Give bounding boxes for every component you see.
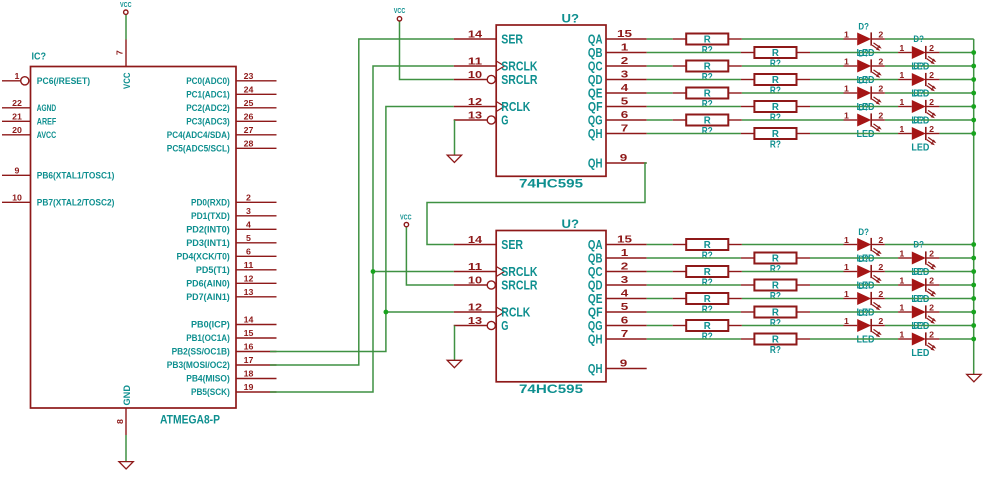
pin 13 G of U#2 <box>454 316 509 333</box>
wire net Q0 to resistor R9 <box>647 244 673 246</box>
wire LED D16 cathode to bus <box>939 338 973 340</box>
ground at G U1 <box>447 155 461 162</box>
svg-text:74HC595: 74HC595 <box>519 382 583 396</box>
pin 7 QH of U#1 <box>588 123 647 142</box>
svg-text:R: R <box>704 321 712 332</box>
wire net Q4 to resistor R13 <box>647 298 673 300</box>
svg-text:7: 7 <box>621 123 629 135</box>
pin 11 SRCLK of U#2 <box>454 262 538 279</box>
svg-text:D?: D? <box>913 321 924 332</box>
wire net Q5 to resistor R6 <box>647 106 741 108</box>
pin 19 PB5(SCK) <box>191 383 277 397</box>
wire resistor R10 to LED D10 <box>810 257 898 259</box>
pin 20 AVCC <box>2 126 56 140</box>
svg-text:14: 14 <box>468 235 483 246</box>
svg-text:20: 20 <box>12 126 22 135</box>
wire net Q6 to resistor R7 <box>647 119 673 121</box>
IC U? 74HC595 shift register #2 body <box>496 219 606 396</box>
svg-text:1: 1 <box>844 236 850 245</box>
svg-text:3: 3 <box>246 207 252 216</box>
svg-text:6: 6 <box>621 109 629 121</box>
svg-text:10: 10 <box>468 276 483 287</box>
resistor R1 value R <box>673 34 742 57</box>
LED D5 <box>844 75 885 113</box>
svg-text:15: 15 <box>617 234 632 246</box>
svg-text:R: R <box>772 48 780 59</box>
LED D2 <box>898 34 939 72</box>
LED D9 <box>844 227 885 265</box>
pin 2 QC of U#1 <box>588 55 647 74</box>
wire branch SS to RCLK U2 <box>386 311 454 313</box>
pin 21 AREF <box>2 112 56 126</box>
svg-text:R?: R? <box>770 291 781 302</box>
resistor R14 value R <box>741 307 810 330</box>
junction on cathode bus <box>971 104 976 109</box>
pin 4 QE of U#1 <box>588 82 647 101</box>
wire net SCK PB5 to SRCLK U1 <box>270 66 454 392</box>
svg-text:6: 6 <box>621 315 629 327</box>
junction SCK branch <box>371 269 376 274</box>
svg-text:24: 24 <box>244 85 254 94</box>
svg-text:R: R <box>704 240 712 251</box>
wire resistor R13 to LED D13 <box>742 298 844 300</box>
wire resistor R8 to LED D8 <box>810 133 898 135</box>
svg-text:4: 4 <box>621 288 629 300</box>
pin 9 PB6(XTAL1/TOSC1) <box>2 166 114 180</box>
svg-text:1: 1 <box>621 247 629 259</box>
wire resistor R7 to LED D7 <box>742 119 844 121</box>
resistor R9 value R <box>673 239 742 262</box>
svg-text:D?: D? <box>913 294 924 305</box>
pin 14 SER of U#1 <box>454 30 524 47</box>
VCC symbol at SRCLR U1 <box>394 8 406 21</box>
svg-text:2: 2 <box>621 261 629 273</box>
svg-text:2: 2 <box>878 236 884 245</box>
svg-text:VCC: VCC <box>120 2 132 9</box>
svg-text:R?: R? <box>770 59 781 70</box>
pin 3 QD of U#2 <box>588 274 647 293</box>
wire branch SCK to SRCLK U2 <box>373 271 454 273</box>
pin 15 QA of U#1 <box>588 28 647 47</box>
wire pin 8 to ground <box>125 435 127 462</box>
svg-text:17: 17 <box>244 356 254 365</box>
LED D6 <box>898 88 939 126</box>
svg-text:2: 2 <box>878 263 884 272</box>
svg-text:R?: R? <box>770 345 781 356</box>
svg-text:19: 19 <box>244 383 254 392</box>
wire resistor R9 to LED D9 <box>742 244 844 246</box>
svg-text:PD2(INT0): PD2(INT0) <box>186 224 230 234</box>
pin 12 RCLK of U#2 <box>454 303 531 320</box>
svg-text:1: 1 <box>844 112 850 121</box>
wire LED D15 cathode to bus <box>885 325 974 327</box>
pin 15 QA of U#2 <box>588 234 647 253</box>
pin 15 PB1(OC1A) <box>186 329 276 343</box>
pin 12 PD6(AIN0) <box>186 274 276 288</box>
svg-text:LED: LED <box>857 129 875 140</box>
svg-text:QH: QH <box>588 156 603 171</box>
svg-text:21: 21 <box>12 112 22 121</box>
pin 13 G of U#1 <box>454 111 509 128</box>
junction on cathode bus <box>971 91 976 96</box>
svg-text:QH: QH <box>588 332 603 347</box>
resistor R3 value R <box>673 61 742 84</box>
microcontroller IC? ATMEGA8-P body <box>31 51 237 427</box>
pin 28 PC5(ADC5/SCL) <box>167 139 277 153</box>
svg-text:VCC: VCC <box>400 215 412 222</box>
svg-text:2: 2 <box>929 44 935 53</box>
junction on cathode bus <box>971 283 976 288</box>
svg-text:12: 12 <box>244 274 254 283</box>
svg-text:PB6(XTAL1/TOSC1): PB6(XTAL1/TOSC1) <box>37 170 115 180</box>
pin 1 QB of U#2 <box>588 247 647 266</box>
svg-text:SRCLR: SRCLR <box>501 72 538 87</box>
svg-text:D?: D? <box>913 115 924 126</box>
svg-text:PB7(XTAL2/TOSC2): PB7(XTAL2/TOSC2) <box>37 197 115 207</box>
svg-text:6: 6 <box>246 247 252 256</box>
svg-text:R?: R? <box>770 264 781 275</box>
resistor R10 value R <box>741 253 810 276</box>
svg-text:4: 4 <box>621 82 629 94</box>
svg-text:G: G <box>501 318 508 333</box>
svg-text:27: 27 <box>244 126 254 135</box>
pin 18 PB4(MISO) <box>186 370 276 384</box>
svg-text:2: 2 <box>621 55 629 67</box>
resistor R8 value R <box>741 128 810 151</box>
svg-text:5: 5 <box>621 96 629 108</box>
pin 6 QG of U#2 <box>588 315 647 334</box>
pin 12 RCLK of U#1 <box>454 97 531 114</box>
svg-text:U?: U? <box>562 14 580 26</box>
wire VCC to pin 7 <box>125 14 127 39</box>
pin 11 PD5(T1) <box>196 261 277 275</box>
svg-text:G: G <box>501 113 508 128</box>
pin 22 AGND <box>2 99 56 113</box>
svg-text:2: 2 <box>929 250 935 259</box>
ground at cathode bus <box>967 374 981 381</box>
wire G U2 to ground <box>454 326 456 361</box>
wire VCC to SRCLR U2 <box>406 227 453 285</box>
wire resistor R12 to LED D12 <box>810 284 898 286</box>
pin 4 QE of U#2 <box>588 288 647 307</box>
LED D15 <box>844 308 885 346</box>
svg-text:1: 1 <box>899 277 905 286</box>
svg-text:D?: D? <box>913 240 924 251</box>
junction on cathode bus <box>971 118 976 123</box>
svg-text:26: 26 <box>244 112 254 121</box>
svg-text:R: R <box>772 254 780 265</box>
svg-text:R?: R? <box>702 126 713 137</box>
svg-text:8: 8 <box>116 418 125 424</box>
svg-text:LED: LED <box>911 143 929 154</box>
LED D11 <box>844 254 885 292</box>
svg-text:R: R <box>772 129 780 140</box>
svg-text:1: 1 <box>899 98 905 107</box>
svg-text:D?: D? <box>858 102 869 113</box>
svg-text:AREF: AREF <box>37 116 57 126</box>
wire net Q3 to resistor R4 <box>647 79 741 81</box>
svg-text:12: 12 <box>468 303 483 314</box>
svg-text:PD0(RXD): PD0(RXD) <box>191 197 230 207</box>
pin 11 SRCLK of U#1 <box>454 57 538 74</box>
pin 14 SER of U#2 <box>454 235 524 252</box>
svg-text:AGND: AGND <box>37 103 57 113</box>
wire resistor R1 to LED D1 <box>742 38 844 40</box>
svg-text:PD4(XCK/T0): PD4(XCK/T0) <box>177 251 230 261</box>
svg-text:R: R <box>772 308 780 319</box>
svg-text:10: 10 <box>12 193 22 202</box>
wire LED D12 cathode to bus <box>939 284 973 286</box>
svg-text:AVCC: AVCC <box>37 130 57 140</box>
resistor R5 value R <box>673 88 742 111</box>
wire resistor R3 to LED D3 <box>742 65 844 67</box>
svg-text:D?: D? <box>858 281 869 292</box>
wire LED cathode bus vertical <box>973 39 975 374</box>
pin 7 VCC <box>116 40 127 67</box>
svg-text:11: 11 <box>468 57 483 68</box>
svg-text:R?: R? <box>702 99 713 110</box>
svg-text:2: 2 <box>929 125 935 134</box>
svg-text:2: 2 <box>929 277 935 286</box>
pin 1 PC6(/RESET) <box>2 72 90 86</box>
wire resistor R2 to LED D2 <box>810 52 898 54</box>
svg-text:1: 1 <box>899 71 905 80</box>
wire net QH' U1 to SER U2 <box>427 163 647 245</box>
wire resistor R4 to LED D4 <box>810 79 898 81</box>
svg-text:ATMEGA8-P: ATMEGA8-P <box>160 413 220 427</box>
wire net Q5 to resistor R14 <box>647 311 741 313</box>
svg-text:R: R <box>704 62 712 73</box>
svg-text:16: 16 <box>244 343 254 352</box>
pin 25 PC2(ADC2) <box>186 99 276 113</box>
wire net Q7 to resistor R8 <box>647 133 741 135</box>
svg-text:1: 1 <box>899 331 905 340</box>
wire LED D11 cathode to bus <box>885 271 974 273</box>
svg-text:D?: D? <box>913 34 924 45</box>
svg-text:2: 2 <box>246 193 252 202</box>
svg-text:VCC: VCC <box>394 8 406 15</box>
svg-text:D?: D? <box>858 227 869 238</box>
svg-text:25: 25 <box>244 99 254 108</box>
svg-text:11: 11 <box>468 262 483 273</box>
svg-text:PB3(MOSI/OC2): PB3(MOSI/OC2) <box>167 360 230 370</box>
svg-text:13: 13 <box>244 288 254 297</box>
resistor R13 value R <box>673 293 742 316</box>
LED D7 <box>844 102 885 140</box>
svg-text:2: 2 <box>878 112 884 121</box>
wire resistor R14 to LED D14 <box>810 311 898 313</box>
svg-text:2: 2 <box>878 317 884 326</box>
pin 16 PB2(SS/OC1B) <box>172 343 277 357</box>
svg-text:R: R <box>704 35 712 46</box>
wire LED D7 cathode to bus <box>885 119 974 121</box>
svg-text:1: 1 <box>844 317 850 326</box>
resistor R7 value R <box>673 115 742 138</box>
pin 26 PC3(ADC3) <box>186 112 276 126</box>
svg-text:D?: D? <box>858 308 869 319</box>
resistor R12 value R <box>741 280 810 303</box>
LED D13 <box>844 281 885 319</box>
resistor R16 value R <box>741 334 810 357</box>
svg-text:QH: QH <box>588 361 603 376</box>
pin 8 GND <box>116 408 126 435</box>
svg-text:SER: SER <box>501 237 523 252</box>
svg-text:D?: D? <box>858 48 869 59</box>
wire net Q2 to resistor R3 <box>647 65 673 67</box>
svg-text:PC3(ADC3): PC3(ADC3) <box>186 116 230 126</box>
svg-text:D?: D? <box>913 88 924 99</box>
wire LED D13 cathode to bus <box>885 298 974 300</box>
LED D12 <box>898 267 939 305</box>
pin 24 PC1(ADC1) <box>186 85 276 99</box>
svg-text:PB2(SS/OC1B): PB2(SS/OC1B) <box>172 347 230 357</box>
wire VCC to SRCLR U1 <box>400 21 454 80</box>
resistor R15 value R <box>673 320 742 343</box>
svg-text:D?: D? <box>913 61 924 72</box>
svg-text:23: 23 <box>244 72 254 81</box>
pin 2 PD0(RXD) <box>191 193 277 207</box>
resistor R4 value R <box>741 74 810 97</box>
svg-text:PD1(TXD): PD1(TXD) <box>191 211 230 221</box>
svg-text:D?: D? <box>858 21 869 32</box>
svg-text:R?: R? <box>702 45 713 56</box>
wire resistor R16 to LED D16 <box>810 338 898 340</box>
pin 3 PD1(TXD) <box>191 207 277 221</box>
svg-text:PC6(/RESET): PC6(/RESET) <box>37 76 90 86</box>
pin 10 SRCLR of U#2 <box>454 276 538 293</box>
junction on cathode bus <box>971 77 976 82</box>
wire LED D14 cathode to bus <box>939 311 973 313</box>
wire LED D2 cathode to bus <box>939 52 973 54</box>
svg-text:D?: D? <box>913 267 924 278</box>
svg-text:U?: U? <box>562 219 580 231</box>
svg-text:PC4(ADC4/SDA): PC4(ADC4/SDA) <box>167 130 230 140</box>
pin 10 PB7(XTAL2/TOSC2) <box>2 193 114 207</box>
IC U? 74HC595 shift register #1 body <box>496 14 606 191</box>
svg-text:2: 2 <box>878 85 884 94</box>
svg-text:28: 28 <box>244 139 254 148</box>
wire G U1 to ground <box>454 120 456 155</box>
wire LED D1 cathode to bus <box>885 38 974 40</box>
wire LED D9 cathode to bus <box>885 244 974 246</box>
svg-text:D?: D? <box>858 254 869 265</box>
svg-text:D?: D? <box>858 75 869 86</box>
svg-text:R?: R? <box>702 305 713 316</box>
svg-text:9: 9 <box>620 358 628 370</box>
svg-text:R: R <box>772 281 780 292</box>
svg-text:R: R <box>704 89 712 100</box>
wire resistor R6 to LED D6 <box>810 106 898 108</box>
pin 6 QG of U#1 <box>588 109 647 128</box>
svg-text:R?: R? <box>770 86 781 97</box>
pin 17 PB3(MOSI/OC2) <box>167 356 277 370</box>
pin 14 PB0(ICP) <box>191 316 277 330</box>
svg-text:R: R <box>772 102 780 113</box>
svg-text:9: 9 <box>15 166 21 175</box>
svg-text:PD6(AIN0): PD6(AIN0) <box>186 278 230 288</box>
pin 23 PC0(ADC0) <box>186 72 276 86</box>
LED D16 <box>898 321 939 359</box>
svg-text:2: 2 <box>929 331 935 340</box>
wire LED D5 cathode to bus <box>885 92 974 94</box>
svg-text:PD5(T1): PD5(T1) <box>196 265 230 275</box>
pin 13 PD7(AIN1) <box>186 288 276 302</box>
wire net MOSI PB3 to SER U1 <box>270 39 454 365</box>
wire net Q6 to resistor R15 <box>647 325 673 327</box>
wire LED D6 cathode to bus <box>939 106 973 108</box>
VCC symbol at SRCLR U2 <box>400 215 412 227</box>
svg-text:1: 1 <box>899 125 905 134</box>
svg-text:2: 2 <box>929 98 935 107</box>
wire LED D10 cathode to bus <box>939 257 973 259</box>
svg-text:R: R <box>704 267 712 278</box>
svg-text:1: 1 <box>844 290 850 299</box>
wire net Q7 to resistor R16 <box>647 338 741 340</box>
svg-text:2: 2 <box>878 290 884 299</box>
resistor R11 value R <box>673 266 742 289</box>
svg-text:2: 2 <box>878 58 884 67</box>
svg-text:R?: R? <box>702 72 713 83</box>
wire net SS PB2 to RCLK U1 <box>270 107 454 352</box>
junction on cathode bus <box>971 50 976 55</box>
wire net Q0 to resistor R1 <box>647 38 673 40</box>
svg-text:7: 7 <box>116 50 125 56</box>
junction on cathode bus <box>971 242 976 247</box>
svg-text:R?: R? <box>702 251 713 262</box>
svg-text:1: 1 <box>844 85 850 94</box>
svg-text:14: 14 <box>468 30 483 41</box>
wire LED D3 cathode to bus <box>885 65 974 67</box>
svg-text:R: R <box>704 294 712 305</box>
wire net Q1 to resistor R10 <box>647 257 741 259</box>
svg-text:R?: R? <box>770 318 781 329</box>
junction on cathode bus <box>971 296 976 301</box>
resistor R2 value R <box>741 47 810 70</box>
svg-text:1: 1 <box>844 58 850 67</box>
junction on cathode bus <box>971 256 976 261</box>
ground below IC <box>119 462 133 469</box>
pin 9 QH of U#2 <box>588 358 647 377</box>
svg-text:PC1(ADC1): PC1(ADC1) <box>186 89 230 99</box>
LED D14 <box>898 294 939 332</box>
svg-text:5: 5 <box>621 301 629 313</box>
svg-text:R: R <box>772 75 780 86</box>
svg-text:VCC: VCC <box>122 72 133 89</box>
junction on cathode bus <box>971 323 976 328</box>
svg-text:1: 1 <box>15 72 21 81</box>
svg-text:PB4(MISO): PB4(MISO) <box>186 374 230 384</box>
junction on cathode bus <box>971 131 976 136</box>
pin 27 PC4(ADC4/SDA) <box>167 126 277 140</box>
svg-text:1: 1 <box>621 42 629 54</box>
svg-text:22: 22 <box>12 99 22 108</box>
svg-text:PC5(ADC5/SCL): PC5(ADC5/SCL) <box>167 143 230 153</box>
pin 2 QC of U#2 <box>588 261 647 280</box>
svg-text:IC?: IC? <box>32 51 47 63</box>
svg-text:PD3(INT1): PD3(INT1) <box>186 238 230 248</box>
svg-text:5: 5 <box>246 234 252 243</box>
svg-text:14: 14 <box>244 316 254 325</box>
svg-text:1: 1 <box>899 44 905 53</box>
LED D3 <box>844 48 885 86</box>
svg-text:1: 1 <box>844 31 850 40</box>
svg-text:1: 1 <box>899 304 905 313</box>
svg-text:SRCLR: SRCLR <box>501 278 538 293</box>
LED D10 <box>898 240 939 278</box>
svg-text:GND: GND <box>122 385 133 406</box>
svg-text:3: 3 <box>621 69 629 81</box>
svg-text:7: 7 <box>621 328 629 340</box>
